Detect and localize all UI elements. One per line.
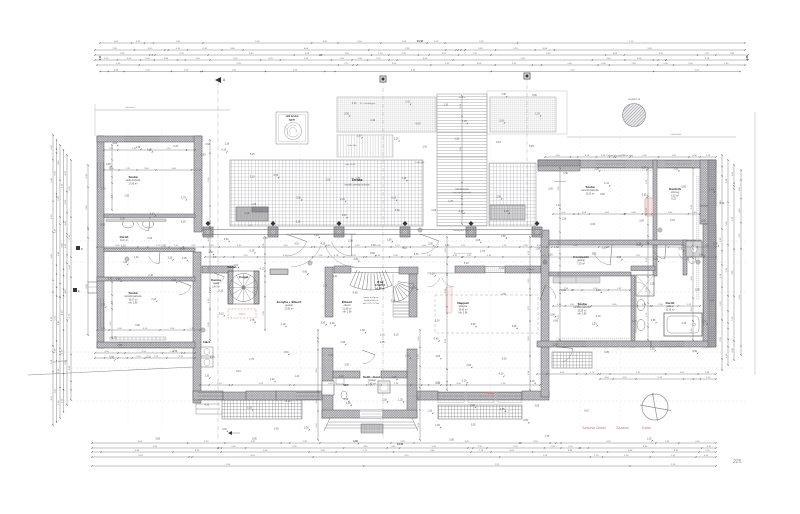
svg-text:1,50: 1,50 bbox=[554, 246, 559, 249]
room label szélfogó bbox=[363, 375, 381, 385]
wall right wing east mid bbox=[700, 206, 712, 224]
svg-text:laminált parketta: laminált parketta bbox=[125, 295, 143, 298]
svg-text:1,41: 1,41 bbox=[422, 145, 427, 148]
stair text block bold bbox=[375, 281, 386, 290]
svg-text:Mosókonyha: Mosókonyha bbox=[455, 189, 469, 191]
wall vestibule east bbox=[407, 349, 417, 418]
svg-text:0,30: 0,30 bbox=[100, 224, 105, 227]
svg-text:Csigal.: Csigal. bbox=[239, 275, 249, 279]
svg-text:2,10: 2,10 bbox=[673, 167, 678, 170]
window left wing north bbox=[124, 136, 160, 142]
svg-text:6,10: 6,10 bbox=[328, 354, 333, 357]
svg-text:4,10: 4,10 bbox=[233, 264, 238, 267]
wall vestibule interior bbox=[333, 371, 360, 378]
svg-text:6,10: 6,10 bbox=[530, 380, 535, 383]
svg-text:3,40 m²: 3,40 m² bbox=[212, 285, 220, 288]
svg-text:2,26: 2,26 bbox=[391, 300, 396, 303]
svg-text:1,10: 1,10 bbox=[443, 103, 448, 106]
room label fürdő left bbox=[120, 235, 129, 242]
wall east outer dense strip bbox=[708, 160, 716, 347]
door wc right bbox=[679, 250, 688, 260]
room label kamra bbox=[211, 278, 221, 288]
compass rose bbox=[640, 393, 671, 421]
svg-text:telekhatár: telekhatár bbox=[125, 106, 135, 109]
svg-text:2,50: 2,50 bbox=[124, 195, 129, 198]
svg-text:elh: 2,98: elh: 2,98 bbox=[129, 303, 139, 305]
axis markers diamonds bbox=[100, 40, 749, 446]
tree right existing bbox=[623, 98, 646, 127]
svg-text:3,05: 3,05 bbox=[650, 283, 655, 286]
svg-text:0,60: 0,60 bbox=[432, 209, 437, 212]
svg-text:5,25: 5,25 bbox=[502, 358, 507, 361]
svg-text:3,18: 3,18 bbox=[343, 398, 348, 401]
svg-text:0,30: 0,30 bbox=[678, 247, 683, 250]
wall right wing east bbox=[700, 160, 716, 206]
room label szoba right lower bbox=[574, 302, 592, 316]
svg-text:1,50: 1,50 bbox=[357, 134, 362, 137]
svg-text:3,50: 3,50 bbox=[602, 247, 607, 250]
door right wing szoba bbox=[593, 245, 612, 265]
svg-text:1,10: 1,10 bbox=[594, 167, 599, 170]
svg-text:5,25: 5,25 bbox=[296, 221, 301, 224]
svg-text:1,10: 1,10 bbox=[270, 378, 275, 381]
svg-text:0,90: 0,90 bbox=[135, 324, 140, 327]
svg-text:2,95: 2,95 bbox=[651, 319, 656, 322]
svg-text:6,10: 6,10 bbox=[219, 312, 224, 315]
svg-text:5,25: 5,25 bbox=[529, 145, 534, 148]
svg-text:1,50: 1,50 bbox=[501, 93, 506, 96]
terrace right courtyard grid bbox=[489, 163, 536, 226]
svg-text:6,10: 6,10 bbox=[173, 145, 178, 148]
wall vestibule interior right bbox=[381, 371, 407, 378]
grill bench on terrace bbox=[236, 207, 268, 221]
svg-text:2,10: 2,10 bbox=[151, 298, 156, 301]
window living south 1 bbox=[438, 392, 464, 400]
window right wing north 2 bbox=[665, 160, 691, 168]
property line left bbox=[28, 359, 193, 375]
svg-text:2,26: 2,26 bbox=[225, 142, 230, 145]
svg-text:3,18: 3,18 bbox=[464, 262, 469, 265]
svg-text:0,90: 0,90 bbox=[720, 202, 725, 205]
svg-text:1,25: 1,25 bbox=[346, 402, 351, 405]
svg-text:3,05: 3,05 bbox=[435, 355, 440, 358]
svg-text:1,25: 1,25 bbox=[647, 437, 652, 440]
planting bed left fine grid bbox=[337, 97, 436, 132]
room label szoba upper left bbox=[126, 175, 141, 185]
svg-text:ágyás: ágyás bbox=[289, 120, 296, 122]
wall right wing partition gardrob bbox=[653, 160, 657, 241]
wall stair west pier bbox=[325, 267, 333, 317]
wardrobe lower szoba bbox=[553, 277, 600, 283]
svg-text:Szauná Dávid: Szauná Dávid bbox=[582, 426, 607, 430]
red highlight gardrob bbox=[645, 198, 653, 216]
svg-text:5,25: 5,25 bbox=[120, 218, 125, 221]
svg-text:15,20 m²: 15,20 m² bbox=[577, 309, 586, 312]
svg-text:3,18: 3,18 bbox=[222, 428, 227, 431]
svg-text:0,60: 0,60 bbox=[302, 270, 307, 273]
room label étkező bbox=[342, 299, 352, 314]
room label fürdő right bbox=[665, 301, 674, 311]
svg-text:2,95: 2,95 bbox=[348, 240, 353, 243]
level markers bbox=[124, 227, 701, 333]
svg-text:padló burkolat: padló burkolat bbox=[126, 179, 141, 182]
svg-text:2,10: 2,10 bbox=[499, 119, 504, 122]
svg-text:1,41: 1,41 bbox=[405, 101, 410, 104]
window bath south bbox=[660, 341, 684, 347]
svg-text:tömör fa lépcső: tömör fa lépcső bbox=[364, 296, 380, 299]
svg-text:1,25: 1,25 bbox=[398, 398, 403, 401]
svg-text:zöld fa köré: zöld fa köré bbox=[286, 116, 299, 118]
svg-text:5,25: 5,25 bbox=[641, 166, 646, 169]
svg-text:3,50: 3,50 bbox=[592, 253, 597, 256]
wall body south kitchen c bbox=[276, 391, 322, 400]
interior dimension chains vertical bbox=[110, 95, 694, 440]
svg-text:3,50: 3,50 bbox=[561, 289, 566, 292]
svg-text:Fürdő: Fürdő bbox=[666, 301, 675, 305]
section arrow bottom bbox=[228, 431, 240, 435]
svg-text:1,41: 1,41 bbox=[333, 275, 338, 278]
closet block vestibule bbox=[378, 381, 390, 393]
svg-text:fű + évelőágyás: fű + évelőágyás bbox=[360, 103, 376, 105]
svg-text:1,10: 1,10 bbox=[435, 319, 440, 322]
svg-text:4,10: 4,10 bbox=[412, 286, 417, 289]
wall left wing mid bbox=[97, 277, 195, 281]
svg-text:2,50: 2,50 bbox=[284, 351, 289, 354]
svg-text:1,10: 1,10 bbox=[535, 113, 540, 116]
svg-text:5,25: 5,25 bbox=[250, 249, 255, 252]
svg-text:23,90 m²: 23,90 m² bbox=[284, 307, 293, 310]
svg-text:2,95: 2,95 bbox=[428, 242, 433, 245]
svg-text:3,50: 3,50 bbox=[449, 439, 454, 442]
svg-text:2,95: 2,95 bbox=[161, 245, 166, 248]
door lower left szoba bbox=[178, 281, 191, 295]
door kamra bbox=[214, 273, 224, 284]
svg-text:4,85: 4,85 bbox=[746, 55, 749, 60]
svg-text:3,05: 3,05 bbox=[274, 427, 279, 430]
svg-text:1,41: 1,41 bbox=[445, 244, 450, 247]
svg-text:3,05: 3,05 bbox=[604, 351, 609, 354]
svg-text:3,50: 3,50 bbox=[639, 220, 644, 223]
svg-text:3,50: 3,50 bbox=[304, 426, 309, 429]
svg-text:6,10: 6,10 bbox=[596, 315, 601, 318]
wc right wing bbox=[689, 251, 697, 264]
svg-text:0,30: 0,30 bbox=[150, 212, 155, 215]
svg-text:6,10: 6,10 bbox=[496, 141, 501, 144]
svg-text:fagyálló greslap burkolat: fagyálló greslap burkolat bbox=[345, 184, 370, 187]
svg-text:3,05: 3,05 bbox=[414, 253, 419, 256]
svg-text:1,75: 1,75 bbox=[100, 304, 105, 307]
door gardrob bbox=[653, 245, 666, 259]
svg-text:laminált parketta: laminált parketta bbox=[574, 306, 592, 309]
svg-text:2,50: 2,50 bbox=[553, 343, 558, 346]
svg-text:1,25: 1,25 bbox=[112, 336, 117, 339]
room label wc vestibule bbox=[343, 383, 349, 387]
wall right wing mid horizontal bbox=[549, 272, 631, 276]
svg-text:parketta: parketta bbox=[459, 305, 468, 308]
svg-text:1,75: 1,75 bbox=[448, 200, 453, 203]
chimney west wall bbox=[88, 282, 97, 293]
svg-text:16,57 m²: 16,57 m² bbox=[128, 298, 137, 301]
svg-text:1,10: 1,10 bbox=[454, 137, 459, 140]
wall body south kitchen b2 bbox=[246, 391, 277, 400]
window left wing south bbox=[118, 342, 170, 348]
svg-text:zöld felület: zöld felület bbox=[671, 133, 682, 136]
svg-text:17,80 m²: 17,80 m² bbox=[128, 182, 137, 185]
svg-text:1,50: 1,50 bbox=[173, 350, 178, 353]
wall living south-east bbox=[522, 391, 549, 400]
interior dimension chains horizontal bbox=[96, 148, 716, 386]
svg-text:Konyha + Étkező: Konyha + Étkező bbox=[277, 299, 302, 304]
window kitchen south 2 bbox=[296, 392, 320, 400]
svg-text:laminált parketta: laminált parketta bbox=[582, 189, 600, 192]
svg-text:0,30: 0,30 bbox=[548, 254, 553, 257]
wall corridor-shower bbox=[653, 245, 657, 276]
doormat top entrance dark grid bbox=[490, 205, 525, 220]
svg-text:4,10: 4,10 bbox=[204, 404, 209, 407]
svg-text:2,95: 2,95 bbox=[500, 408, 505, 411]
svg-text:0,90: 0,90 bbox=[252, 437, 257, 440]
svg-text:2,26: 2,26 bbox=[182, 257, 187, 260]
svg-text:radiátor: radiátor bbox=[238, 313, 246, 316]
gravel strip bbox=[337, 135, 393, 157]
svg-text:Kamra: Kamra bbox=[211, 278, 221, 282]
wall left wing interior bath bbox=[104, 214, 195, 218]
svg-text:2,50: 2,50 bbox=[617, 256, 622, 259]
window living south 3 bbox=[498, 392, 522, 400]
svg-text:1,50: 1,50 bbox=[471, 424, 476, 427]
svg-text:4,10: 4,10 bbox=[294, 243, 299, 246]
svg-text:1,50: 1,50 bbox=[650, 347, 655, 350]
svg-text:0,90: 0,90 bbox=[434, 338, 439, 341]
svg-text:1,25: 1,25 bbox=[462, 120, 467, 123]
svg-text:2,26: 2,26 bbox=[637, 243, 642, 246]
wall right wing north long bbox=[538, 160, 716, 168]
svg-text:3,50: 3,50 bbox=[471, 323, 476, 326]
svg-text:1,41: 1,41 bbox=[604, 182, 609, 185]
room label szoba lower left bbox=[125, 291, 143, 305]
svg-text:greslap: greslap bbox=[368, 379, 376, 382]
carpet dashed nappali bbox=[435, 295, 538, 333]
svg-text:1,75: 1,75 bbox=[480, 250, 485, 253]
svg-text:4,10: 4,10 bbox=[499, 373, 504, 376]
svg-text:kamra: kamra bbox=[213, 282, 220, 285]
wall body south kitchen b bbox=[223, 392, 247, 400]
wall living south bbox=[438, 392, 522, 400]
wall right wc partition bbox=[683, 240, 687, 275]
svg-text:2,10: 2,10 bbox=[250, 175, 255, 178]
svg-text:1,25: 1,25 bbox=[402, 177, 407, 180]
svg-text:Gardrób: Gardrób bbox=[669, 187, 681, 191]
bathtub bbox=[664, 313, 702, 336]
main staircase with winders bbox=[350, 268, 414, 318]
pink handwriting bbox=[582, 426, 651, 430]
door left bath bbox=[137, 217, 150, 231]
steps left of terrace bbox=[196, 399, 222, 414]
window sills living south bbox=[438, 400, 522, 403]
svg-text:szőnyeg: szőnyeg bbox=[671, 192, 680, 194]
svg-text:34,40 m²: 34,40 m² bbox=[458, 308, 467, 311]
svg-text:1,50: 1,50 bbox=[387, 238, 392, 241]
svg-text:0,60: 0,60 bbox=[600, 193, 605, 196]
room label nappali bbox=[457, 301, 468, 315]
room label csigalépcső bbox=[239, 275, 249, 279]
svg-text:3,18: 3,18 bbox=[245, 212, 250, 215]
svg-text:Szélf.+Gard.: Szélf.+Gard. bbox=[363, 375, 381, 379]
svg-text:7,10 m²: 7,10 m² bbox=[577, 262, 585, 265]
svg-text:2,50: 2,50 bbox=[501, 293, 506, 296]
svg-text:ki-be álló: ki-be álló bbox=[416, 162, 426, 164]
dimension chain block top bbox=[94, 41, 748, 72]
room label közlekedő bbox=[573, 255, 589, 265]
svg-text:5,25: 5,25 bbox=[181, 221, 186, 224]
door bath bbox=[540, 285, 556, 300]
spiral staircase bbox=[228, 271, 259, 304]
insulation strip right wing top room bbox=[558, 168, 652, 172]
svg-text:0,90: 0,90 bbox=[205, 143, 210, 146]
svg-text:étkező: étkező bbox=[344, 304, 351, 307]
svg-text:1,50: 1,50 bbox=[535, 247, 540, 250]
dimension chain block bottom bbox=[91, 441, 716, 467]
svg-text:korláttal 90 cm: korláttal 90 cm bbox=[364, 299, 378, 302]
svg-text:3,05: 3,05 bbox=[548, 187, 553, 190]
boundary line top left bbox=[95, 104, 230, 136]
room label háztartási bbox=[203, 340, 211, 344]
svg-text:2,10: 2,10 bbox=[146, 355, 151, 358]
svg-text:2,26: 2,26 bbox=[340, 198, 345, 201]
double door kitchen north bbox=[290, 234, 356, 267]
red highlight radiator kitchen bbox=[228, 309, 256, 318]
svg-text:1,25: 1,25 bbox=[632, 320, 637, 323]
tree in planter top center bbox=[276, 112, 308, 144]
svg-text:Fürdő: Fürdő bbox=[120, 235, 129, 239]
wall right wing south bbox=[537, 341, 651, 347]
svg-text:1,10: 1,10 bbox=[121, 245, 126, 248]
svg-text:16,20 m²: 16,20 m² bbox=[585, 192, 594, 195]
wall stair east pier bbox=[409, 274, 417, 317]
section line B vertical bbox=[380, 76, 386, 440]
svg-text:2,95: 2,95 bbox=[380, 341, 385, 344]
svg-text:2,95: 2,95 bbox=[117, 344, 122, 347]
terrace main grid bbox=[230, 160, 423, 226]
svg-text:3,50: 3,50 bbox=[496, 195, 501, 198]
svg-text:1,75: 1,75 bbox=[181, 196, 186, 199]
svg-text:1,41: 1,41 bbox=[110, 356, 115, 359]
svg-text:0,60: 0,60 bbox=[416, 122, 421, 125]
svg-text:1,10: 1,10 bbox=[204, 375, 209, 378]
svg-text:0,90: 0,90 bbox=[550, 313, 555, 316]
svg-text:2,95: 2,95 bbox=[106, 163, 111, 166]
svg-text:1,10: 1,10 bbox=[380, 333, 385, 336]
terrace bottom left grid bbox=[222, 399, 302, 419]
door vestibule inner bbox=[362, 350, 375, 364]
svg-text:1,10: 1,10 bbox=[561, 217, 566, 220]
double door etkezo-nappali bbox=[427, 273, 455, 287]
svg-text:3,18: 3,18 bbox=[402, 247, 407, 250]
svg-text:2,95: 2,95 bbox=[210, 356, 215, 359]
window right wing north 1 bbox=[596, 160, 626, 168]
svg-text:0,90: 0,90 bbox=[370, 252, 375, 255]
window left wing west 1 bbox=[97, 162, 104, 188]
svg-text:2,10: 2,10 bbox=[168, 256, 173, 259]
svg-text:0,60: 0,60 bbox=[553, 320, 558, 323]
svg-text:0,90: 0,90 bbox=[596, 289, 601, 292]
svg-text:0,60: 0,60 bbox=[330, 322, 335, 325]
terrace right small grid bbox=[552, 352, 592, 368]
left wing south dimension chains bbox=[94, 351, 195, 359]
svg-text:ki-be álló: ki-be álló bbox=[348, 145, 358, 147]
svg-text:6,10: 6,10 bbox=[222, 148, 227, 151]
svg-text:Pozdorjafal 1,00 m: Pozdorjafal 1,00 m bbox=[453, 229, 471, 232]
wall north thick dense strip bbox=[538, 160, 580, 166]
kitchen counter bbox=[270, 269, 288, 275]
svg-text:3,50: 3,50 bbox=[532, 94, 537, 97]
svg-text:3,50: 3,50 bbox=[208, 251, 213, 254]
svg-text:3,18: 3,18 bbox=[171, 279, 176, 282]
left marker E bbox=[73, 288, 80, 293]
scattered dimension annotations bbox=[100, 93, 725, 444]
svg-text:1,10: 1,10 bbox=[430, 272, 435, 275]
svg-text:2,26: 2,26 bbox=[470, 404, 475, 407]
door lower szoba right bbox=[557, 347, 573, 362]
vestibule wc fixtures bbox=[336, 378, 347, 399]
svg-text:1,41: 1,41 bbox=[108, 278, 113, 281]
svg-text:1,25: 1,25 bbox=[642, 194, 647, 197]
svg-text:0,60: 0,60 bbox=[395, 209, 400, 212]
svg-text:Szalma: Szalma bbox=[616, 426, 629, 430]
svg-text:Házt.: Házt. bbox=[203, 340, 211, 344]
window right bedroom south bbox=[556, 341, 586, 347]
svg-text:2,10: 2,10 bbox=[370, 119, 375, 122]
room label konyha bbox=[277, 299, 302, 310]
svg-text:4,10: 4,10 bbox=[584, 409, 589, 412]
wall left wing north bbox=[97, 136, 202, 142]
svg-text:1,50: 1,50 bbox=[360, 329, 365, 332]
svg-text:0,90: 0,90 bbox=[681, 185, 686, 188]
vestibule entrance door gap bbox=[360, 410, 382, 418]
svg-text:2,26: 2,26 bbox=[713, 243, 718, 246]
section line A vertical bbox=[215, 77, 226, 440]
vestibule doormat grid bbox=[361, 424, 383, 433]
wall body south kitchen a bbox=[193, 391, 223, 400]
svg-text:1,75: 1,75 bbox=[250, 319, 255, 322]
svg-text:4,10: 4,10 bbox=[260, 268, 265, 271]
svg-text:0,60: 0,60 bbox=[201, 153, 206, 156]
svg-text:6,10: 6,10 bbox=[147, 237, 152, 240]
svg-text:Szoba: Szoba bbox=[585, 185, 594, 189]
svg-text:2,50: 2,50 bbox=[501, 235, 506, 238]
door terrace 3 bbox=[420, 234, 439, 254]
svg-text:0,60: 0,60 bbox=[436, 382, 441, 385]
svg-text:1,41: 1,41 bbox=[709, 188, 714, 191]
wall vestibule south bbox=[322, 410, 417, 418]
svg-text:1,10: 1,10 bbox=[427, 410, 432, 413]
svg-text:3,05: 3,05 bbox=[709, 300, 714, 303]
svg-text:5,25: 5,25 bbox=[671, 198, 676, 201]
svg-text:szint ±0,00: szint ±0,00 bbox=[345, 163, 356, 166]
svg-text:225.: 225. bbox=[732, 459, 743, 465]
svg-text:greslap: greslap bbox=[285, 304, 293, 307]
svg-text:2,95: 2,95 bbox=[340, 341, 345, 344]
svg-text:1,41: 1,41 bbox=[499, 267, 504, 270]
svg-text:1,10: 1,10 bbox=[281, 323, 286, 326]
svg-text:Nappali: Nappali bbox=[457, 301, 468, 305]
svg-text:21,16: 21,16 bbox=[417, 40, 424, 43]
svg-text:1,75: 1,75 bbox=[392, 376, 397, 379]
entry walkway planks bbox=[437, 94, 487, 226]
wall nappali north a bbox=[455, 266, 485, 273]
wall left wing east upper bbox=[194, 136, 202, 232]
window right wing east bbox=[703, 300, 716, 326]
